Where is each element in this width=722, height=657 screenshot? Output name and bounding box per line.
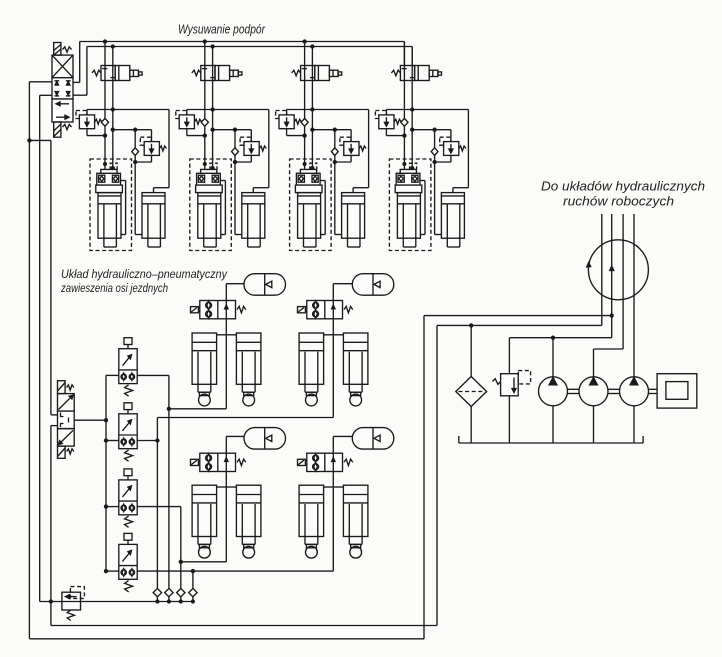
pilot operated check block on cylinder 4: [403, 163, 406, 166]
wire: circuit A return line: [169, 408, 226, 410]
wire: long line to pump suction / filter: [437, 324, 602, 326]
wire: pipe along right of cylinder C1.1: [121, 180, 126, 182]
spring bottom of valve R2: [67, 449, 74, 454]
hydro-pneumatic accumulator A: [244, 274, 286, 296]
wire: bus A from valve R1 to bottom outer loop: [29, 81, 52, 83]
wire: relief valve Z4.2 outlet: [450, 155, 452, 162]
wire: pump line 4: [633, 214, 635, 377]
wire: pump P2 suction to tank: [593, 406, 595, 443]
wire: bus B from valve R1 to bottom collector: [40, 94, 52, 96]
suspension cylinder C.2: [236, 485, 261, 536]
tank collector line: [459, 442, 643, 444]
check valve on unit 1 left line: [101, 118, 108, 126]
check valve on unit 2 cylinder-2 line: [234, 130, 236, 148]
svg-text:zawieszenia osi jezdnych: zawieszenia osi jezdnych: [60, 281, 168, 295]
wire: collector line to relief valve: [40, 601, 193, 603]
wire: unit 1 relief branch: [113, 129, 152, 131]
svg-text:Wysuwanie podpór: Wysuwanie podpór: [178, 23, 266, 37]
wire: filter to tank: [470, 407, 472, 444]
valve R2 position box 1: [58, 394, 75, 412]
pilot check valve block V2.1 (2/2 valve with cylinder operator): [192, 70, 201, 76]
dashed enclosure of locked cylinder 4: [389, 159, 431, 251]
wire: unit 2 supply to cylinder 2 top: [268, 110, 270, 188]
wire: pump 2 riser jog: [594, 348, 624, 350]
suspension cylinder A.1: [192, 333, 217, 384]
pilot check valve block V4.1 (2/2 valve with cylinder operator): [391, 70, 400, 76]
wire: accumulator B connection: [332, 284, 334, 301]
wire: unit 4 riser left from supply bus 1: [403, 42, 405, 119]
spring bottom of valve R1: [63, 124, 72, 129]
support cylinder C4.2: [441, 193, 464, 239]
wire: pipe along right of cylinder C2.1: [220, 180, 225, 182]
suspension directional valve R2: [58, 381, 66, 394]
unit 2 manifold top line: [187, 109, 269, 111]
wire: reducing valve Z3.1 outlet to left line: [286, 129, 288, 136]
suction filter F1: [456, 377, 487, 407]
unit 4 manifold top line: [386, 109, 468, 111]
wire: unit 3 line to cylinder 2 bottom port: [334, 156, 336, 235]
suspension cylinder D.2: [343, 485, 368, 536]
suspension cylinder D.1: [299, 485, 324, 536]
wire: unit 4 riser right from supply bus 2: [411, 47, 413, 167]
main valve R1 solenoid bottom: [54, 122, 61, 137]
valve R1 position box 1 (crossed): [52, 55, 73, 78]
pump P3: [620, 377, 649, 406]
wire: valve R2 outlet to lock-valve stack: [74, 419, 106, 421]
unit 1 manifold top line: [87, 109, 169, 111]
check valve on unit 1 cylinder-2 line: [134, 130, 136, 148]
cylinder 2 head plate: [196, 185, 223, 193]
valve R2 actuator bottom: [58, 446, 66, 458]
wire: unit 4 line to cylinder 2 bottom port: [434, 156, 436, 235]
wire: bottom supply line (outer): [29, 638, 424, 640]
check valve on unit 3 cylinder-2 line: [334, 130, 336, 148]
pump P1: [539, 377, 568, 406]
wire: circuit B supply vertical: [332, 319, 334, 418]
wire: unit 3 riser left from supply bus 1: [304, 42, 306, 119]
wire: valve R1 drain link: [29, 139, 51, 141]
wire: unit 2 line to cylinder 2 bottom port: [234, 156, 236, 235]
wire: circuit B return line: [157, 417, 333, 419]
wire: unit 4 left line below check valve: [403, 126, 405, 170]
valve R2 position box 2 (center): [58, 411, 75, 429]
wire: accumulator D connection: [332, 436, 334, 453]
wire: valve S3 right port to collector riser 3: [137, 506, 181, 508]
suspension cylinder A.2: [236, 333, 261, 384]
wire: reducing valve Z1.1 outlet to left line: [86, 129, 88, 136]
suspension cylinder B.2: [343, 333, 368, 384]
dashed enclosure of locked cylinder 3: [290, 159, 332, 251]
valve R1 position box 2 (center, closed ports): [52, 78, 73, 99]
lock valve S4 plunger: [124, 533, 132, 540]
suspension cylinder C.1: [192, 485, 217, 536]
pressure reducing valve Z4.1: [385, 110, 387, 115]
dashed enclosure of locked cylinder 1: [90, 159, 132, 251]
wire: unit 4 supply to cylinder 2 top: [467, 110, 469, 188]
wire: circuit C return line: [181, 561, 227, 563]
hydro-pneumatic accumulator C: [244, 428, 286, 450]
support cylinder C3.2: [342, 193, 365, 239]
wire: riser from main valve port B to bus 2: [73, 94, 87, 96]
wire: bus C upper segment: [50, 140, 52, 415]
suspension lock valve C (2/2 seated): [191, 459, 199, 465]
dashed enclosure of locked cylinder 2: [190, 159, 232, 251]
wire: lock valve S1 left port: [106, 374, 119, 376]
lock valve S2 plunger: [124, 403, 132, 410]
check valve K1 in collector row: [153, 588, 161, 596]
wire: ports to cylinder pair C: [217, 486, 227, 488]
check valve K4 in collector row: [189, 588, 197, 596]
wire: unit 2 riser left from supply bus 1: [204, 42, 206, 119]
wire: unit 3 supply to cylinder 2 top: [368, 110, 370, 188]
wire: pump P1 suction to tank: [552, 406, 554, 443]
wire: unit 3 riser right from supply bus 2: [311, 47, 313, 167]
wire: pump line 1: [601, 214, 603, 325]
wire: ports to cylinder pair A: [217, 334, 227, 336]
wire: lock valve S4 left port: [106, 570, 119, 572]
wire: bottom return line (inner): [51, 625, 437, 627]
pressure reducing valve Z3.1: [286, 110, 288, 115]
support cylinder C1.2: [142, 193, 165, 239]
wire: unit 1 supply to cylinder 2 top: [168, 110, 170, 188]
wire: supply bus 1 (upper): [80, 41, 405, 43]
pilot operated check block on cylinder 1: [104, 163, 107, 166]
hydro-pneumatic accumulator D: [352, 428, 394, 450]
wire: collector riser 4: [192, 571, 194, 589]
wire: pump line 3: [622, 214, 624, 349]
lock valve S3 plunger: [124, 469, 132, 476]
wire: valve S1 right port to collector riser 2: [137, 374, 169, 376]
engine / drive box M: [657, 374, 697, 408]
wire: ports to cylinder pair D: [324, 486, 334, 488]
wire: unit 1 riser left from supply bus 1: [104, 42, 106, 119]
support cylinder C3.1: [298, 193, 321, 239]
relief valve Z2.2: [240, 137, 251, 145]
spring of valve B: [344, 306, 353, 312]
wire: unit 1 line to cylinder 2 bottom port: [134, 156, 136, 235]
relief valve Z1.2: [140, 137, 151, 145]
wire: filter riser: [470, 325, 472, 376]
support cylinder C2.2: [242, 193, 265, 239]
spring below lock valve S3: [125, 516, 133, 527]
suspension lock valve A (2/2 seated): [191, 307, 199, 313]
wire: unit 1 left line below check valve: [104, 126, 106, 170]
cylinder 1 head plate: [96, 185, 123, 193]
lock valve S3 body: [119, 480, 137, 515]
spring top of valve R1: [63, 47, 72, 52]
suspension lock valve B (2/2 seated): [298, 307, 306, 313]
check valve K3 in collector row: [177, 588, 185, 596]
wire: reducing valve Z2.1 outlet to left line: [186, 129, 188, 136]
wire: accumulator C connection: [225, 436, 227, 453]
wire: pump line 2: [611, 214, 613, 338]
wire: circuit C supply vertical: [225, 472, 227, 562]
wire: unit 2 relief branch: [213, 129, 252, 131]
wire: valve S2 right port: [137, 440, 157, 442]
wire: relief valve Z2.2 outlet: [250, 155, 252, 162]
wire: long line to pump pressure junction: [424, 315, 612, 317]
pump relief valve Z5: [518, 371, 530, 384]
suspension cylinder B.1: [299, 333, 324, 384]
check valve K2 in collector row: [165, 588, 173, 596]
wire: relief valve to tank: [508, 396, 510, 443]
pilot operated check block on cylinder 2: [203, 163, 206, 166]
shaft: pump 2 - pump 3: [608, 388, 620, 390]
wire: stack feed vertical: [105, 375, 107, 571]
wire: lock valve S3 left port: [106, 506, 119, 508]
spring of valve C: [237, 459, 246, 465]
pump P2: [579, 377, 608, 406]
pressure reducing valve Z1.1: [86, 110, 88, 115]
power take-off circle (to working hydraulics): [588, 240, 648, 300]
system relief valve Z0: [70, 587, 84, 599]
spring below lock valve S1: [125, 385, 133, 396]
wire: unit 1 riser right from supply bus 2: [112, 47, 114, 167]
pilot check valve block V1.1 (2/2 valve with cylinder operator): [92, 70, 101, 76]
spring below lock valve S4: [125, 581, 133, 592]
hydro-pneumatic accumulator B: [352, 274, 394, 296]
wire: circuit D supply vertical: [332, 472, 334, 572]
wire: unit 3 left line below check valve: [304, 126, 306, 170]
svg-text:Do układów hydraulicznych: Do układów hydraulicznych: [541, 178, 705, 193]
lock valve S1 body: [119, 349, 137, 384]
spring of valve A: [237, 306, 246, 312]
support cylinder C4.1: [397, 193, 420, 239]
spring below relief valve Z0: [67, 610, 74, 621]
wire: supply bus 2 (lower): [87, 46, 412, 48]
wire: pump P3 suction to tank: [633, 406, 635, 443]
main directional valve R1 (supports), solenoid top: [54, 43, 61, 56]
valve R2 position box 3: [58, 429, 75, 447]
lock valve S2 body: [119, 414, 137, 449]
wire: accumulator A connection: [225, 284, 227, 301]
support cylinder C1.1: [98, 193, 121, 239]
wire: pipe along right of cylinder C3.1: [320, 180, 325, 182]
wire: unit 4 relief branch: [412, 129, 451, 131]
wire: circuit A supply vertical: [225, 319, 227, 409]
wire: unit 2 left line below check valve: [204, 126, 206, 170]
wire: unit 3 relief branch: [312, 129, 351, 131]
pilot check valve block V3.1 (2/2 valve with cylinder operator): [292, 70, 301, 76]
wire: reducing valve Z4.1 outlet to left line: [385, 129, 387, 136]
check valve on unit 3 left line: [301, 118, 308, 126]
cylinder 4 head plate: [395, 185, 422, 193]
shaft: pump 3 - engine: [649, 388, 658, 390]
wire: lock valve S2 left port: [106, 440, 119, 442]
wire: unit 2 riser right from supply bus 2: [212, 47, 214, 167]
wire: relief valve riser: [508, 338, 510, 374]
wire: pipe along right of cylinder C4.1: [420, 180, 425, 182]
wire: relief valve Z3.2 outlet: [350, 155, 352, 162]
relief valve Z4.2: [440, 137, 451, 145]
shaft: pump 1 - pump 2: [568, 388, 580, 390]
check valve on unit 4 cylinder-2 line: [434, 130, 436, 148]
pilot operated check block on cylinder 3: [303, 163, 306, 166]
wire: relief valve Z1.2 outlet: [151, 155, 153, 162]
wire: valve S4 right port / circuit D line: [137, 570, 333, 572]
unit 3 manifold top line: [287, 109, 369, 111]
wire: ports to cylinder pair B: [324, 334, 334, 336]
wire: riser from main valve port A to bus 1: [73, 81, 80, 83]
relief valve Z3.2: [340, 137, 351, 145]
suspension lock valve D (2/2 seated): [298, 459, 306, 465]
check valve on unit 2 left line: [201, 118, 208, 126]
wire: pump 1 riser and relief header: [509, 337, 611, 339]
wire: collector riser 1 (circuit B): [156, 418, 158, 589]
lock valve S4 body: [119, 544, 137, 579]
svg-text:ruchów roboczych: ruchów roboczych: [563, 194, 674, 209]
svg-text:Układ hydrauliczno–pneumatyczn: Układ hydrauliczno–pneumatyczny: [61, 267, 228, 281]
spring below lock valve S2: [125, 450, 133, 461]
spring top of valve R2: [67, 385, 74, 390]
pressure reducing valve Z2.1: [186, 110, 188, 115]
lock valve S1 plunger: [124, 338, 132, 345]
check valve on unit 4 left line: [401, 118, 408, 126]
spring of valve D: [344, 459, 353, 465]
wire: bus C lower segment: [51, 425, 58, 427]
cylinder 3 head plate: [295, 185, 322, 193]
valve R1 position box 3 (parallel flow): [52, 99, 73, 122]
support cylinder C2.1: [198, 193, 221, 239]
